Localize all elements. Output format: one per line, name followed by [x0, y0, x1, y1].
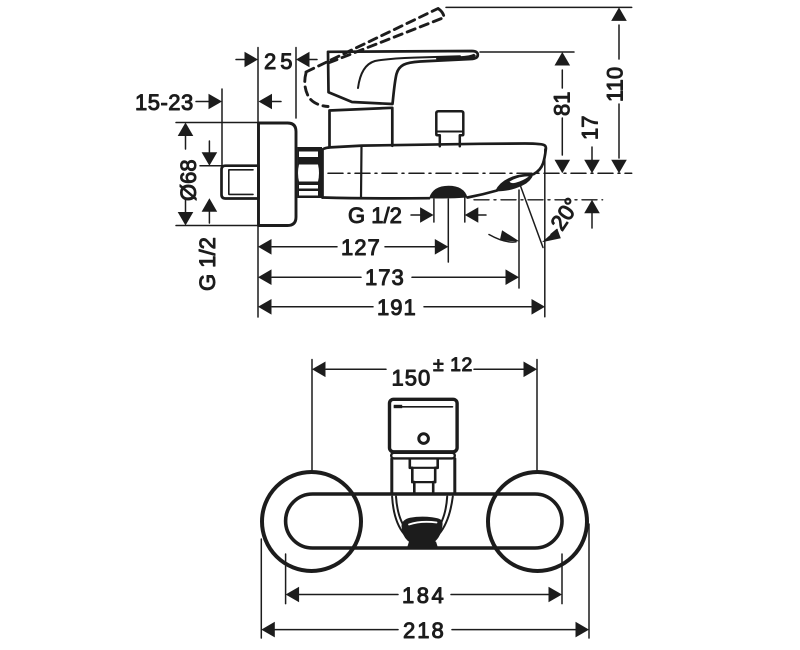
centerline	[328, 172, 632, 174]
svg-text:25: 25	[264, 49, 296, 74]
dimension 191	[258, 299, 545, 315]
escutcheon front face extension line	[295, 48, 297, 119]
diverter dot	[419, 434, 429, 444]
svg-text:G 1/2: G 1/2	[348, 203, 402, 228]
body capsule	[286, 494, 562, 548]
diverter escutcheon sides	[392, 459, 455, 494]
spout bowl (front view)	[392, 497, 453, 544]
diverter stepped stem	[410, 459, 438, 494]
svg-text:81: 81	[550, 92, 575, 116]
dimension 25	[236, 52, 317, 68]
G1/2 arrows at aerator	[411, 196, 486, 223]
svg-text:110: 110	[603, 67, 628, 102]
faucet body and spout (side view)	[323, 144, 546, 198]
raised handle (dashed)	[305, 9, 444, 107]
dimension 17	[584, 147, 600, 228]
dimension G1/2 left (inlet thread)	[200, 141, 224, 223]
inlet nipple G1/2	[222, 166, 259, 199]
svg-text:± 12: ± 12	[433, 354, 473, 376]
cartridge cover	[330, 108, 393, 146]
handle swoosh	[358, 56, 460, 88]
wall line	[257, 48, 259, 318]
extension line raised handle top	[446, 6, 632, 8]
dimension 184	[286, 554, 562, 604]
20 degree arc leader with arrowheads	[489, 235, 516, 243]
svg-text:20°: 20°	[545, 193, 584, 235]
svg-text:Ø68: Ø68	[176, 159, 201, 201]
svg-text:127: 127	[341, 235, 381, 260]
spout mouth (dark)	[402, 517, 443, 546]
svg-text:G 1/2: G 1/2	[195, 237, 220, 291]
svg-text:191: 191	[377, 295, 417, 320]
body seam line	[360, 146, 363, 198]
spout open lip (crescent)	[495, 174, 534, 192]
left wall escutcheon circle	[262, 472, 361, 571]
handle (closed position)	[328, 51, 478, 104]
dimension 127	[258, 239, 448, 255]
spout pedestal	[407, 542, 439, 550]
svg-text:17: 17	[578, 116, 603, 140]
dimension 173	[258, 269, 519, 285]
diverter collar	[391, 453, 455, 459]
diverter cap (front view)	[390, 399, 458, 452]
extension lines for 127/173/191	[448, 149, 545, 317]
diverter knob (side view)	[436, 111, 463, 146]
dimension 81	[555, 52, 571, 173]
dimension 110	[611, 7, 627, 173]
aerator face extension (dash-dot)	[474, 199, 603, 201]
dimension 218	[261, 524, 589, 638]
union nut thread	[298, 147, 323, 198]
svg-text:15-23: 15-23	[135, 90, 194, 115]
20 degree slant line	[521, 186, 544, 248]
dimension 150 +/-12	[312, 360, 537, 471]
escutcheon (wall plate, side view)	[259, 123, 297, 226]
svg-text:218: 218	[403, 618, 446, 643]
extension line handle top	[480, 51, 574, 53]
handle blade underside shading	[436, 54, 476, 62]
aerator dome	[429, 186, 468, 199]
svg-text:173: 173	[365, 265, 405, 290]
spout underside	[323, 191, 498, 199]
dimension Ø68	[176, 123, 257, 226]
right wall escutcheon circle	[488, 472, 587, 571]
svg-text:150: 150	[392, 366, 432, 391]
svg-text:184: 184	[402, 583, 446, 608]
